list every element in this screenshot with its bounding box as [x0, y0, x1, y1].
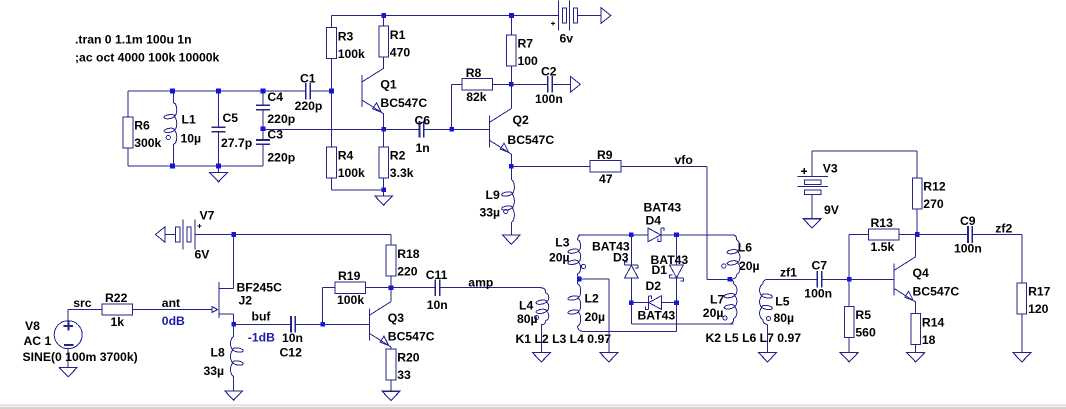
- svg-text:D4: D4: [646, 214, 662, 228]
- svg-text:100k: 100k: [338, 47, 365, 61]
- resistor R12: [912, 178, 922, 209]
- ground K1 centre tap: [600, 353, 618, 362]
- svg-text:220p: 220p: [295, 99, 323, 113]
- wire R8 to Q2 base node: [450, 84, 452, 129]
- inductor L7: [734, 285, 737, 319]
- svg-text:9V: 9V: [824, 203, 840, 217]
- inductor L6: [737, 241, 740, 275]
- capacitor C4: [256, 105, 270, 109]
- wire mixer top rail left: [579, 234, 649, 236]
- inductor L7 top hook: [730, 279, 734, 284]
- junction C4 C3 feedback tap: [261, 127, 266, 132]
- battery V3 9V: [797, 177, 828, 195]
- capacitor C12: [291, 316, 295, 333]
- wire R5 top: [848, 279, 850, 306]
- junction C4 top: [261, 89, 266, 94]
- wire mixer right rail upper: [676, 235, 678, 265]
- ground R14: [907, 353, 925, 362]
- wire L5 to ground: [767, 325, 769, 353]
- resistor R7: [507, 35, 517, 66]
- junction R2 bottom ground node: [381, 188, 386, 193]
- ground Q1 stage: [375, 196, 393, 205]
- wire R18 bottom: [390, 276, 392, 288]
- svg-text:D3: D3: [613, 250, 629, 264]
- svg-text:D2: D2: [646, 279, 662, 293]
- wire L8 bottom stem: [233, 376, 235, 391]
- svg-text:0dB: 0dB: [162, 314, 185, 328]
- resistor R14: [911, 314, 921, 345]
- svg-text:470: 470: [390, 45, 411, 59]
- svg-text:C6: C6: [415, 114, 431, 128]
- wire mixer left rail lower: [630, 278, 632, 303]
- wire R2 bottom: [383, 178, 385, 190]
- svg-text:R3: R3: [338, 29, 354, 43]
- wire 6V rail to R18: [234, 234, 391, 236]
- svg-text:R6: R6: [134, 119, 150, 133]
- wire C4-C3 mid: [262, 110, 264, 140]
- svg-text:80µ: 80µ: [517, 312, 538, 326]
- wire Q2 emitter to R9: [511, 165, 590, 167]
- svg-text:3.3k: 3.3k: [390, 166, 414, 180]
- inductor L3 top hook: [578, 235, 582, 240]
- svg-text:R5: R5: [855, 308, 871, 322]
- svg-text:D1: D1: [652, 263, 668, 277]
- svg-text:ant: ant: [162, 296, 180, 310]
- diode D2 BAT43: [646, 296, 662, 310]
- wire V8 top stem: [67, 310, 69, 321]
- svg-text:20µ: 20µ: [703, 306, 724, 320]
- svg-text:R7: R7: [518, 37, 534, 51]
- diode D4 BAT43: [648, 228, 664, 242]
- inductor L9: [511, 180, 514, 222]
- wire R19 left: [323, 287, 335, 289]
- svg-text:100: 100: [518, 54, 539, 68]
- wire to tank ground: [218, 166, 220, 172]
- wire R20 bottom: [390, 380, 392, 391]
- svg-text:src: src: [73, 296, 92, 310]
- svg-text:1k: 1k: [111, 315, 125, 329]
- wire Q1 base node down to R4: [331, 91, 333, 147]
- junction R12 R13 C9 node: [915, 232, 920, 237]
- wire V3 minus stem: [811, 194, 813, 218]
- svg-text:BAT43: BAT43: [644, 200, 682, 214]
- junction L3 L2 centre tap: [577, 277, 582, 282]
- svg-text:BC547C: BC547C: [507, 133, 554, 147]
- svg-text:220p: 220p: [267, 112, 295, 126]
- transistor Q3 BC547C: [369, 302, 391, 347]
- svg-text:R22: R22: [105, 291, 128, 305]
- capacitor C1: [306, 83, 310, 100]
- svg-text:L2: L2: [585, 292, 599, 306]
- inductor L3 bottom hook: [578, 274, 580, 280]
- inductor L8: [231, 337, 234, 376]
- capacitor C3: [256, 140, 270, 144]
- svg-text:AC 1: AC 1: [24, 334, 52, 348]
- wire Q4 collector up: [915, 235, 917, 257]
- wire R2 top: [383, 129, 385, 147]
- svg-text:100n: 100n: [804, 286, 832, 300]
- resistor R5: [844, 307, 854, 338]
- wire R12 bottom: [916, 209, 918, 235]
- wire L1 bottom stem: [173, 144, 175, 166]
- wire tank top rail: [128, 90, 306, 92]
- svg-text:Q3: Q3: [388, 311, 404, 325]
- resistor R17: [1017, 283, 1027, 314]
- resistor R20: [386, 349, 396, 380]
- svg-text:80µ: 80µ: [774, 311, 795, 325]
- wire R12 top: [916, 151, 918, 178]
- battery V7 6V: [176, 220, 195, 250]
- wire Q3 collector up: [390, 288, 392, 302]
- wire R4 bottom: [331, 178, 333, 190]
- plus sign V3: [801, 168, 807, 174]
- wire R8 right: [493, 83, 512, 85]
- svg-text:6V: 6V: [195, 248, 211, 262]
- wire R7 top: [510, 16, 512, 35]
- wire mixer top rail right: [661, 234, 732, 236]
- wire C1 to Q1 base node: [310, 90, 331, 92]
- svg-text:120: 120: [1028, 302, 1049, 316]
- junction mixer bottom left: [629, 300, 634, 305]
- svg-text:amp: amp: [468, 275, 493, 289]
- svg-text:220p: 220p: [267, 150, 295, 164]
- resistor R13: [868, 229, 899, 240]
- wire C9 to zf2: [972, 234, 1022, 236]
- junction amp node: [389, 285, 394, 290]
- wire tank bottom rail: [128, 165, 263, 167]
- svg-text:20µ: 20µ: [549, 250, 570, 264]
- junction Q2 emitter node: [509, 164, 514, 169]
- resistor R19: [335, 282, 366, 293]
- ground L9: [502, 235, 520, 244]
- svg-text:R19: R19: [338, 269, 361, 283]
- svg-text:BC547C: BC547C: [388, 329, 435, 343]
- wire L9 top stem: [510, 166, 512, 180]
- ground L5: [759, 353, 777, 362]
- battery 6v: [558, 1, 577, 31]
- wire top supply rail: [332, 15, 559, 17]
- svg-text:R12: R12: [923, 180, 946, 194]
- junction Q1 base node: [329, 89, 334, 94]
- svg-text:J2: J2: [239, 294, 253, 308]
- svg-text:10µ: 10µ: [181, 132, 202, 146]
- junction L1 bottom: [170, 164, 175, 169]
- wire R4 to R2 bottom: [332, 189, 384, 191]
- svg-text:1.5k: 1.5k: [871, 240, 895, 254]
- diode D3 BAT43: [625, 262, 639, 278]
- svg-text:BC547C: BC547C: [380, 96, 427, 110]
- capacitor C6: [420, 121, 424, 138]
- svg-text:R9: R9: [597, 148, 613, 162]
- inductor L7 bottom hook: [728, 318, 734, 324]
- svg-text:.tran 0 1.1m 100u 1n: .tran 0 1.1m 100u 1n: [75, 33, 192, 47]
- svg-text:33µ: 33µ: [204, 364, 225, 378]
- svg-text:300k: 300k: [134, 136, 161, 150]
- wire R3 bottom: [331, 59, 333, 91]
- svg-text:1n: 1n: [416, 141, 430, 155]
- wire R1 bottom to Q1 collector: [383, 57, 385, 68]
- wire C5 bottom: [218, 132, 220, 166]
- capacitor C2: [548, 76, 552, 93]
- wire R1 top: [383, 16, 385, 27]
- wire buf to C12: [234, 323, 291, 325]
- resistor R4: [327, 147, 337, 178]
- wire R7 bottom to Q2 collector: [510, 66, 512, 108]
- wire C2 to port: [552, 83, 570, 85]
- svg-text:BAT43: BAT43: [638, 308, 676, 322]
- voltage source V8: [54, 321, 82, 349]
- wire Q4 base: [849, 278, 894, 280]
- wire R9 to vfo corner: [621, 165, 707, 167]
- svg-text:R20: R20: [397, 351, 420, 365]
- transistor Q2 BC547C: [490, 109, 512, 154]
- wire vfo down: [706, 166, 708, 279]
- inductor L2 top hook: [578, 279, 580, 284]
- capacitor C11: [435, 279, 439, 296]
- svg-text:C11: C11: [426, 268, 448, 282]
- junction R19 tap: [320, 322, 325, 327]
- svg-text:L6: L6: [738, 240, 752, 254]
- svg-text:270: 270: [923, 197, 944, 211]
- wire to Q1 stage ground: [383, 190, 385, 196]
- wire port to V7: [165, 234, 175, 236]
- inductor L3: [578, 240, 581, 274]
- svg-text:R1: R1: [390, 28, 406, 42]
- wire mixer bottom right drop: [676, 303, 678, 332]
- wire V8 to R22: [68, 309, 102, 311]
- svg-text:47: 47: [599, 172, 613, 186]
- wire C4 top: [262, 91, 264, 105]
- svg-text:100n: 100n: [535, 92, 563, 106]
- junction mixer top right: [674, 233, 679, 238]
- svg-text:SINE(0 100m 3700k): SINE(0 100m 3700k): [23, 350, 138, 364]
- ground tank: [210, 172, 228, 181]
- wire mixer left rail upper: [630, 235, 632, 265]
- transistor Q1 BC547C: [362, 68, 384, 113]
- svg-text:R8: R8: [466, 66, 482, 80]
- svg-text:C12: C12: [280, 345, 303, 359]
- wire V8 bottom stem: [67, 349, 69, 368]
- junction buf node: [231, 322, 236, 327]
- transistor Q4 BC547C: [894, 257, 916, 302]
- wire C12 to Q3 base: [295, 323, 369, 325]
- junction R8 tap: [449, 127, 454, 132]
- resistor R2: [379, 147, 389, 178]
- wire amp node to C11: [391, 287, 435, 289]
- svg-text:L8: L8: [211, 345, 225, 359]
- junction R1 top: [381, 13, 386, 18]
- wire mixer right rail lower: [676, 278, 678, 303]
- wire C5 top: [218, 91, 220, 127]
- junction mixer top left: [629, 233, 634, 238]
- wire L8 top stem: [233, 324, 235, 337]
- ground L4: [533, 353, 551, 362]
- wire centre tap to ground: [579, 278, 609, 280]
- wire L4 to ground: [540, 325, 542, 353]
- inductor L5 bottom hook: [763, 319, 768, 325]
- wire V7 to J2 drain node: [195, 234, 234, 236]
- inductor L1: [174, 103, 177, 144]
- svg-text:18: 18: [922, 333, 936, 347]
- resistor R1: [379, 26, 389, 57]
- junction R7 R8 C2 node: [509, 82, 514, 87]
- svg-text:R17: R17: [1028, 285, 1051, 299]
- svg-text:10n: 10n: [282, 331, 303, 345]
- wire R3 top: [331, 16, 333, 28]
- svg-text:Q2: Q2: [513, 113, 529, 127]
- resistor R6: [123, 117, 133, 148]
- svg-text:L5: L5: [775, 295, 789, 309]
- svg-text:Q4: Q4: [913, 266, 929, 280]
- ground R20: [382, 391, 400, 400]
- svg-text:zf1: zf1: [780, 265, 797, 279]
- svg-text:K2 L5 L6 L7 0.97: K2 L5 L6 L7 0.97: [706, 331, 802, 345]
- svg-text:V7: V7: [200, 209, 215, 223]
- svg-text:27.7p: 27.7p: [221, 136, 252, 150]
- inductor L2: [578, 284, 581, 326]
- resistor R9: [590, 161, 621, 172]
- wire battery to port: [578, 15, 601, 17]
- ground R17: [1013, 353, 1031, 362]
- resistor R22: [102, 304, 133, 315]
- svg-text:L1: L1: [182, 113, 196, 127]
- svg-text:Q1: Q1: [380, 78, 396, 92]
- svg-text:L4: L4: [519, 298, 533, 312]
- wire D2 cathode stub: [631, 302, 648, 304]
- svg-text:20µ: 20µ: [739, 259, 760, 273]
- junction Q1 emitter node: [381, 127, 386, 132]
- capacitor C9: [968, 226, 972, 243]
- svg-text:33µ: 33µ: [480, 205, 501, 219]
- svg-text:C2: C2: [541, 64, 557, 78]
- port flag +6v: [601, 8, 611, 24]
- svg-text:L3: L3: [555, 235, 569, 249]
- inductor L6 top hook: [732, 235, 737, 241]
- svg-text:C4: C4: [267, 90, 283, 104]
- wire R13 to Q4 base node: [848, 235, 850, 280]
- wire R19 to buf node: [322, 288, 324, 325]
- junction R7 top: [509, 13, 514, 18]
- svg-text:220: 220: [397, 264, 418, 278]
- window bottom edge: [0, 405, 1066, 406]
- svg-text:V8: V8: [25, 319, 40, 333]
- wire R13 right: [899, 234, 917, 236]
- svg-text:L9: L9: [486, 188, 500, 202]
- svg-text:L7: L7: [710, 292, 724, 306]
- ground V8: [59, 368, 77, 377]
- wire R6 bottom: [127, 148, 129, 166]
- wire L1 top stem: [173, 91, 175, 103]
- wire zf2 down to R17: [1021, 235, 1023, 283]
- svg-text:BF245C: BF245C: [237, 281, 283, 295]
- wire Q3 emitter down: [390, 347, 392, 349]
- resistor R8: [462, 79, 493, 90]
- transistor J2 BF245C (n-JFET): [212, 235, 233, 325]
- wire centre tap down: [608, 279, 610, 353]
- wire L9 bottom stem: [510, 222, 512, 235]
- svg-text:-1dB: -1dB: [248, 330, 275, 344]
- inductor L2 bottom hook: [578, 326, 585, 332]
- svg-text:20µ: 20µ: [585, 310, 606, 324]
- wire R13 left: [849, 234, 868, 236]
- wire mixer bottom cross to L7: [631, 323, 733, 325]
- wire mixer bottom left drop: [630, 303, 632, 325]
- svg-text:R4: R4: [338, 149, 354, 163]
- svg-text:100n: 100n: [954, 242, 982, 256]
- wire D2 anode stub: [661, 302, 676, 304]
- port flag V7: [155, 227, 165, 243]
- wire Q1 emitter down: [383, 114, 385, 130]
- junction C5 bottom: [216, 164, 221, 169]
- wire V3 plus stem: [811, 151, 813, 177]
- wire R17 bottom: [1021, 314, 1023, 353]
- svg-text:6v: 6v: [560, 32, 574, 46]
- svg-text:560: 560: [855, 326, 876, 340]
- svg-text:C9: C9: [960, 214, 976, 228]
- inductor L5 top hook: [763, 279, 768, 284]
- junction L6 L7 centre tap vfo: [728, 277, 733, 282]
- inductor L4 top hook: [541, 288, 546, 293]
- inductor L5: [760, 285, 763, 320]
- svg-text:10n: 10n: [427, 298, 448, 312]
- junction mixer bottom right: [674, 300, 679, 305]
- plus sign 6v battery: [551, 21, 555, 25]
- diode D1 BAT43: [670, 265, 684, 281]
- wire R19 right: [366, 287, 391, 289]
- svg-text:C7: C7: [812, 258, 828, 272]
- svg-text:100k: 100k: [337, 293, 364, 307]
- resistor R18: [386, 245, 396, 276]
- svg-text:100k: 100k: [338, 166, 365, 180]
- junction L1 top: [170, 89, 175, 94]
- svg-text:R14: R14: [922, 315, 945, 329]
- junction C5 top: [216, 89, 221, 94]
- inductor L4 bottom hook: [541, 321, 545, 327]
- svg-text:R2: R2: [390, 149, 406, 163]
- inductor L6 bottom hook: [730, 274, 737, 279]
- ground L8: [225, 391, 243, 400]
- wire feedback line C3 tap to C6: [263, 128, 419, 130]
- wire to C9: [917, 234, 968, 236]
- svg-text:C5: C5: [223, 111, 239, 125]
- svg-text:K1 L2 L3 L4 0.97: K1 L2 L3 L4 0.97: [516, 332, 612, 346]
- wire R22 to J2 gate: [133, 309, 212, 311]
- wire C7 to Q4 base node: [822, 278, 849, 280]
- wire C6 to Q2 base: [424, 128, 490, 130]
- capacitor C5: [212, 127, 226, 131]
- wire R5 bottom: [848, 338, 850, 353]
- capacitor C7: [817, 271, 821, 288]
- wire V3 to R12 top: [812, 150, 917, 152]
- wire vfo to L6 L7 tap: [707, 278, 730, 280]
- inductor L4: [546, 293, 549, 321]
- port flag C2 out: [571, 76, 581, 92]
- svg-text:82k: 82k: [466, 90, 487, 104]
- wire zf1 to C7: [767, 278, 817, 280]
- svg-text:zf2: zf2: [995, 222, 1012, 236]
- wire L2 bottom to mixer: [585, 331, 677, 333]
- svg-text:vfo: vfo: [675, 153, 693, 167]
- svg-text:buf: buf: [252, 310, 272, 324]
- wire Q2 emitter down: [510, 154, 512, 166]
- svg-text:V3: V3: [823, 162, 838, 176]
- ground V3: [803, 219, 821, 228]
- svg-text:R13: R13: [871, 216, 894, 230]
- junction Q4 base node: [847, 277, 852, 282]
- wire R8 left: [451, 83, 462, 85]
- ground R5: [840, 353, 858, 362]
- svg-text:;ac oct 4000 100k 10000k: ;ac oct 4000 100k 10000k: [75, 50, 220, 64]
